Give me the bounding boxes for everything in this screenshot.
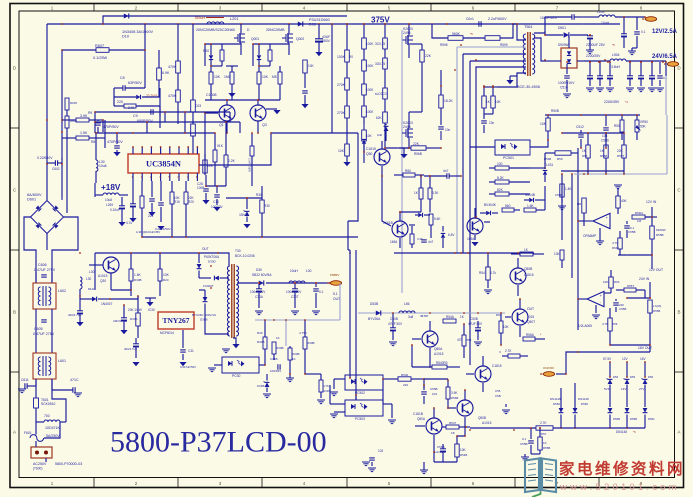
resistor chain R302 270K: [337, 78, 349, 106]
resistor R208 10K: [257, 66, 269, 100]
svg-text:4n7: 4n7: [428, 240, 433, 244]
wire 5V fb gray: [255, 283, 340, 346]
svg-text:3.9K: 3.9K: [451, 391, 458, 395]
inductor L504 3.8uH: [605, 53, 666, 69]
svg-text:AMO30.1B: AMO30.1B: [113, 319, 127, 323]
svg-text:10D471K: 10D471K: [45, 426, 61, 430]
svg-text:R547: R547: [449, 421, 457, 425]
transistor Q3: [250, 100, 281, 127]
resistor R207: [224, 66, 234, 100]
zener D561 13V: [621, 357, 636, 407]
zener D201: [203, 44, 213, 66]
node dots adj: [547, 114, 607, 149]
wire q501 net: [372, 157, 382, 176]
svg-text:BYV26C 600V/1A: BYV26C 600V/1A: [192, 313, 216, 317]
svg-text:C0x1: C0x1: [466, 17, 474, 21]
capacitor C18: [155, 181, 171, 231]
resistor R551: [442, 421, 470, 435]
wire top bus main: [47, 23, 620, 25]
gnd R310: [317, 400, 325, 404]
svg-text:UC3854N: UC3854N: [146, 160, 181, 169]
svg-text:R55B: R55B: [600, 154, 607, 158]
svg-text:R60: R60: [405, 169, 411, 173]
capacitor C310 0.047uF: [179, 330, 196, 369]
svg-text:R55B: R55B: [653, 309, 660, 313]
resistor R562 1K: [600, 133, 608, 174]
svg-text:3.3K: 3.3K: [417, 237, 423, 241]
diode D511: [480, 203, 498, 215]
wire driver out: [204, 112, 218, 175]
svg-text:A: A: [677, 430, 680, 435]
svg-text:1M5: 1M5: [224, 75, 231, 79]
transistor Q502: [383, 212, 415, 248]
resistor R566: [614, 182, 627, 214]
label 2200/25V: [586, 54, 601, 58]
svg-text:R31B: R31B: [323, 389, 330, 393]
capacitor C605 0.47UF 275V: [33, 309, 55, 353]
svg-text:Q30: Q30: [100, 279, 106, 283]
svg-text:10K: 10K: [540, 122, 547, 126]
transistor Q504 C1815: [488, 258, 534, 296]
svg-text:R30B: R30B: [307, 341, 315, 345]
svg-text:D56B: D56B: [630, 417, 637, 421]
resistor column R310: [305, 374, 330, 398]
svg-text:R55T: R55T: [617, 154, 624, 158]
op-amp U2B 1/2LA6065: [577, 291, 604, 328]
svg-text:C1815: C1815: [366, 147, 376, 151]
svg-text:C605: C605: [34, 327, 43, 331]
svg-text:R23: R23: [163, 278, 169, 282]
resistor R541: [511, 248, 544, 258]
wire opto drive: [350, 375, 356, 400]
capacitor C230: [438, 124, 450, 148]
diode D305 BYV26C: [192, 290, 216, 322]
resistor R304b: [257, 320, 267, 357]
electrolytic C304 100uF16V: [250, 282, 266, 315]
resistor R510 100: [489, 162, 530, 170]
wire 18V rail top: [95, 120, 215, 133]
resistor R17 91K: [199, 132, 224, 186]
svg-text:C03: C03: [195, 104, 201, 108]
svg-text:0.47UF 275V: 0.47UF 275V: [34, 268, 56, 272]
wire aux net: [483, 86, 497, 88]
svg-text:ON/OFF: ON/OFF: [543, 366, 554, 370]
capacitor C530 4n7: [424, 169, 461, 179]
svg-text:R50B: R50B: [551, 109, 559, 113]
svg-text:R55B: R55B: [656, 233, 664, 237]
resistor R506: [614, 115, 624, 140]
resistor R24 24K: [114, 100, 160, 110]
resistor R14 10K: [170, 181, 180, 237]
svg-text:PC503: PC503: [355, 417, 365, 421]
svg-text:C55B: C55B: [619, 307, 626, 311]
resistor R212: [301, 44, 314, 108]
mosfet Q310 K2645: [402, 24, 413, 58]
svg-text:SB22 60V/5A: SB22 60V/5A: [252, 273, 272, 277]
capacitor C610 471C: [52, 378, 82, 397]
wire hv rail 253: [364, 163, 534, 253]
capacitor C602 0.22/630V: [37, 156, 62, 200]
thermistor T601 SCK0510: [34, 379, 56, 419]
svg-text:0.1: 0.1: [522, 437, 527, 441]
svg-text:C50B: C50B: [555, 193, 562, 197]
watermark text main: [559, 459, 685, 478]
capacitor C516 1000P/1KV: [558, 64, 575, 98]
svg-text:0.1/25W: 0.1/25W: [93, 56, 108, 60]
svg-text:*5: *5: [612, 43, 615, 47]
capacitor C540 47UF50V: [388, 313, 403, 346]
svg-text:4.7K: 4.7K: [323, 384, 329, 388]
wire T301 primary: [168, 247, 229, 334]
resistor R568 6400W: [650, 217, 666, 255]
wire 24vin: [627, 277, 651, 299]
svg-text:HR: HR: [577, 202, 581, 206]
electrolytic bank 24V b: [627, 61, 655, 86]
AC input connector CON600: [31, 441, 82, 471]
resistor R304 10K: [338, 144, 351, 166]
svg-text:10K: 10K: [460, 448, 466, 452]
svg-text:10K: 10K: [554, 252, 560, 256]
svg-text:5A/250V: 5A/250V: [46, 434, 60, 438]
svg-text:D06: D06: [309, 23, 316, 27]
wire opto out bus: [382, 378, 398, 404]
resistor R220 1K: [482, 86, 491, 114]
resistor R549 220: [398, 373, 448, 388]
gnd TNY: [145, 298, 156, 306]
capacitor C17 223: [148, 181, 156, 218]
resistor chain R312 100K: [362, 60, 375, 84]
svg-text:D56: D56: [648, 375, 654, 379]
diode D303 1N4007: [199, 276, 229, 288]
svg-text:100P: 100P: [197, 186, 204, 190]
node dots 375 columns: [346, 23, 410, 153]
diode row bottom: [431, 321, 433, 323]
node dots gate: [204, 43, 260, 101]
svg-text:Q002: Q002: [296, 37, 304, 41]
svg-text:D54148: D54148: [616, 430, 627, 434]
svg-text:R55B: R55B: [543, 446, 550, 450]
svg-text:3.3K: 3.3K: [432, 191, 439, 195]
resistor R60: [394, 169, 424, 177]
svg-text:TNY267: TNY267: [162, 316, 189, 325]
svg-text:L56: L56: [404, 302, 410, 306]
resistor chain R314 100K: [362, 106, 375, 130]
svg-text:560K: 560K: [452, 32, 461, 36]
svg-text:2: 2: [135, 5, 138, 10]
svg-text:1K: 1K: [276, 336, 280, 340]
label 2200/35V *4: [604, 100, 628, 104]
resistor R62 3.3K: [428, 175, 439, 212]
wire fb column: [530, 147, 546, 210]
svg-text:1N4007: 1N4007: [101, 302, 113, 306]
svg-text:C1008: C1008: [206, 93, 217, 97]
svg-text:2: 2: [135, 481, 138, 486]
svg-text:+: +: [600, 294, 603, 298]
svg-text:MCP6014: MCP6014: [160, 331, 174, 335]
resistor R315 10K: [362, 130, 373, 152]
svg-text:C512: C512: [576, 125, 584, 129]
zener D310: [377, 124, 388, 141]
svg-text:0.047uF/50V: 0.047uF/50V: [180, 365, 196, 369]
svg-text:22K: 22K: [425, 54, 432, 58]
wire adj rail: [545, 114, 640, 131]
svg-text:220: 220: [117, 100, 123, 104]
capacitor C551 1uF/50V: [434, 444, 446, 462]
svg-text:OPA6MP: OPA6MP: [583, 234, 596, 238]
resistor R564 1.4K: [555, 184, 572, 210]
svg-text:4.7u: 4.7u: [126, 221, 132, 225]
svg-text:D: D: [677, 66, 681, 71]
capacitor C306: [312, 282, 324, 315]
svg-text:10K: 10K: [262, 75, 269, 79]
wire 12V out: [583, 16, 646, 35]
svg-text:Q1: Q1: [219, 123, 224, 127]
svg-text:5800-P37LCD-00: 5800-P37LCD-00: [110, 426, 327, 459]
svg-text:50K: 50K: [640, 125, 646, 129]
svg-text:sLO2C0: sLO2C0: [375, 92, 387, 96]
wire zener bus: [470, 427, 645, 429]
bridge rectifier D601 6A/600V: [27, 193, 64, 234]
svg-text:Q3: Q3: [262, 123, 267, 127]
svg-text:L30: L30: [86, 277, 91, 281]
svg-text:R54B: R54B: [460, 453, 467, 457]
svg-text:450V: 450V: [322, 39, 331, 43]
resistor R514 5.6K: [524, 204, 545, 212]
wire bundle v2: [463, 54, 526, 253]
resistor R16 10K: [203, 154, 214, 175]
svg-text:100K: 100K: [366, 42, 374, 46]
electrolytic bank 24V: [587, 61, 613, 86]
svg-text:100K: 100K: [366, 88, 374, 92]
svg-text:3u8: 3u8: [408, 315, 413, 319]
svg-text:C606: C606: [38, 263, 47, 267]
svg-text:R54A: R54A: [446, 315, 455, 319]
gnd mid gate: [226, 66, 238, 97]
wire opampA out bus: [618, 207, 653, 269]
common-mode choke L601: [33, 353, 66, 379]
diode D302 P60XT06A: [197, 252, 220, 278]
wire left AC bus: [46, 24, 48, 163]
svg-text:R54: R54: [466, 338, 472, 342]
wire PC501 nets: [470, 140, 548, 147]
svg-text:6400W: 6400W: [656, 228, 666, 232]
svg-text:1/2LA065: 1/2LA065: [578, 324, 592, 328]
label BCE-30-4506: [517, 85, 540, 89]
inductor L30 10uH: [96, 133, 107, 183]
svg-text:R56B: R56B: [451, 396, 458, 400]
mosfet Q001: [196, 24, 259, 55]
wire 16v bus: [610, 344, 650, 346]
svg-text:M5: M5: [272, 75, 277, 79]
svg-text:R56: R56: [612, 322, 618, 326]
svg-text:C50B: C50B: [390, 317, 398, 321]
svg-text:IC30: IC30: [148, 308, 155, 312]
resistor R63 5.6K: [429, 212, 441, 238]
svg-text:270K: 270K: [337, 111, 346, 115]
wire bundle links: [441, 70, 447, 95]
resistor R520 22K: [391, 142, 441, 157]
+18V label: [101, 183, 121, 192]
resistor R307 4.75K: [299, 320, 315, 374]
svg-text:C31B: C31B: [270, 357, 278, 361]
svg-text:D501: D501: [558, 26, 566, 30]
resistor R605: [65, 50, 77, 116]
IC U1 top pins: [132, 146, 198, 154]
capacitor C606 0.47UF 275V: [34, 263, 56, 283]
svg-text:471C: 471C: [70, 378, 79, 382]
svg-text:A1015: A1015: [482, 421, 492, 425]
svg-text:*: *: [540, 333, 542, 337]
electrolytic C301: [68, 299, 84, 326]
wire bundle v3: [470, 61, 526, 365]
transistor Q503: [467, 208, 490, 246]
capacitor C14 470P/50V: [107, 132, 123, 156]
capacitor C531 4n7: [417, 237, 433, 244]
electrolytic C502: [621, 16, 627, 45]
zener D530: [415, 213, 430, 217]
svg-text:470P/50V: 470P/50V: [107, 140, 123, 144]
wire mid down link: [348, 221, 351, 254]
resistor R548: [411, 344, 460, 369]
svg-text:BCK-10-0206: BCK-10-0206: [235, 254, 255, 258]
svg-text:5: 5: [388, 481, 391, 486]
op-amp U2 OPA64P: [577, 213, 610, 244]
svg-text:2.7K: 2.7K: [540, 421, 547, 425]
svg-text:*5: *5: [470, 32, 473, 36]
svg-text:Q50B: Q50B: [524, 267, 532, 271]
svg-text:BYV26A: BYV26A: [368, 317, 381, 321]
resistor R571 1K: [538, 428, 551, 454]
svg-text:Q001: Q001: [251, 37, 259, 41]
svg-text:2.2K: 2.2K: [228, 159, 236, 163]
svg-text:R30: R30: [257, 331, 263, 335]
svg-text:R598: R598: [440, 43, 448, 47]
svg-text:5.1: 5.1: [333, 292, 338, 296]
svg-text:0.1: 0.1: [319, 290, 324, 294]
diode D566: [608, 408, 621, 428]
svg-text:1M: 1M: [637, 219, 642, 223]
svg-text:R0: R0: [349, 55, 353, 59]
wire vertical x62: [61, 50, 63, 160]
zener D202: [257, 44, 261, 66]
375V label: [371, 16, 390, 25]
wire gray PFC fb: [401, 30, 403, 293]
wire uc right link: [215, 121, 227, 147]
svg-text:4.7k: 4.7k: [490, 271, 496, 275]
resistor chain R313 100K: [362, 84, 375, 106]
resistor R574 10K: [603, 270, 620, 293]
node dots fb: [392, 252, 521, 346]
capacitor C517: [657, 62, 667, 86]
svg-text:F601: F601: [24, 431, 32, 435]
transistor Q506 1015: [505, 299, 535, 337]
resistor R570: [648, 300, 662, 352]
svg-text:400/4.7UF: 400/4.7UF: [124, 347, 137, 351]
svg-text:D601: D601: [27, 198, 36, 202]
svg-text:470K: 470K: [168, 65, 177, 69]
resistor R512 82K: [489, 188, 530, 196]
svg-text:R30: R30: [264, 204, 270, 208]
svg-text:63P/50V: 63P/50V: [128, 81, 142, 85]
inductor 10D471K: [36, 379, 66, 430]
svg-text:L269: L269: [106, 203, 113, 207]
svg-text:A: A: [13, 430, 16, 435]
wire T561 sec top: [534, 31, 545, 33]
wire pin stubs up: [146, 111, 186, 134]
resistor R305 1K: [272, 320, 284, 360]
svg-text:2.2uF/600V: 2.2uF/600V: [488, 17, 507, 21]
svg-text:6.8V: 6.8V: [448, 233, 455, 237]
svg-text:560: 560: [505, 204, 511, 208]
svg-text:R8: R8: [91, 140, 95, 144]
wire D301 to R303: [79, 295, 138, 300]
svg-text:+: +: [606, 216, 609, 220]
title 5800-P37LCD-00: [110, 426, 327, 459]
svg-text:Q50T: Q50T: [527, 320, 535, 324]
zener D12 22.7V: [114, 94, 160, 99]
resistor R306 1K: [288, 346, 300, 374]
svg-text:82K: 82K: [497, 188, 504, 192]
resistor R18 2.2K: [224, 147, 236, 186]
diode D563: [550, 388, 563, 428]
capacitor C611: [18, 378, 36, 393]
diode D06: [298, 18, 330, 27]
svg-text:-: -: [600, 301, 602, 305]
svg-text:10uH: 10uH: [601, 21, 610, 25]
svg-text:4.7B: 4.7B: [602, 322, 608, 326]
op-amp IC U1 UC3854N: [128, 154, 199, 173]
svg-text:20K 1/4W: 20K 1/4W: [128, 308, 142, 312]
svg-text:700: 700: [44, 414, 50, 418]
light wire 313: [358, 312, 505, 314]
svg-text:Q50B: Q50B: [478, 416, 486, 420]
svg-text:C31: C31: [188, 349, 194, 353]
svg-text:1664: 1664: [467, 237, 474, 241]
svg-text:3: 3: [219, 5, 222, 10]
node junction dots top: [102, 23, 514, 25]
wire ctl links: [382, 175, 461, 226]
diode D568: [643, 408, 656, 428]
gnd stand cluster: [286, 374, 294, 382]
wire mid bus133: [271, 133, 358, 221]
transformer T561: [523, 25, 534, 76]
wire under IC: [142, 228, 358, 238]
potentiometer VR501 50K: [635, 115, 648, 140]
mosfet Q002: [266, 24, 304, 55]
resistor R209: [272, 66, 282, 100]
zener D560 5V6: [603, 357, 619, 407]
svg-text:VR50: VR50: [640, 120, 648, 124]
resistor R303 20K: [128, 296, 142, 338]
svg-text:R20: R20: [188, 200, 194, 204]
resistor R561 1K: [582, 133, 590, 174]
svg-text:22K: 22K: [413, 142, 420, 146]
svg-text:A40: A40: [377, 133, 383, 137]
svg-text:家电维修资料网: 家电维修资料网: [559, 459, 685, 478]
svg-text:R30B: R30B: [134, 278, 142, 282]
node dots transformer: [440, 23, 518, 87]
capacitor C19 100P: [197, 175, 210, 204]
gnd T561 shield: [506, 76, 521, 84]
svg-text:P6B5V: P6B5V: [330, 273, 339, 277]
label 2.7K: [502, 349, 528, 358]
svg-text:100/63V: 100/63V: [270, 369, 281, 373]
resistor R565 HR50: [577, 174, 586, 226]
resistor R552 10K: [455, 436, 468, 462]
transistor Q501 C1815: [366, 141, 390, 176]
svg-text:47.5V: 47.5V: [420, 314, 428, 318]
resistor R330 22K: [409, 44, 432, 92]
